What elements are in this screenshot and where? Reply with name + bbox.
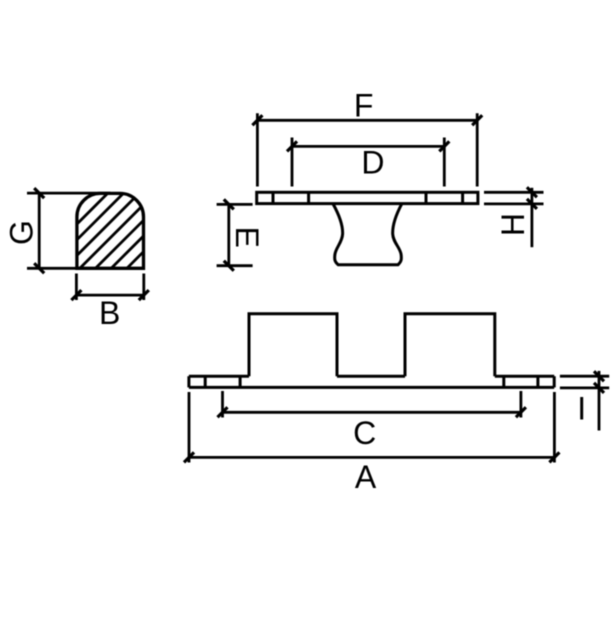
cross-section profile (view 1) (77, 193, 144, 268)
svg-text:B: B (99, 295, 120, 331)
dimension A slashes (184, 452, 559, 462)
svg-text:D: D (361, 144, 384, 180)
dimension A extension lines (189, 392, 554, 463)
svg-text:C: C (353, 415, 376, 451)
dimension F extension lines (257, 113, 477, 186)
dimension E extension ticks (217, 204, 253, 265)
dimension D slashes (287, 141, 449, 151)
dimension H line (531, 188, 534, 247)
dimension F slashes (252, 115, 482, 125)
dimension A line (189, 456, 554, 459)
svg-text:A: A (355, 459, 377, 495)
dimension G slashes (34, 188, 44, 273)
dimension B extension lines (76, 274, 143, 301)
dimension C extension lines (223, 391, 521, 418)
dimension C slashes (218, 407, 526, 417)
dimension G line (38, 193, 41, 268)
dimension C line (223, 411, 521, 414)
dimension E slashes (224, 199, 234, 270)
svg-text:E: E (229, 227, 265, 248)
side view top bar (view 2) (257, 192, 478, 203)
svg-text:F: F (354, 88, 374, 124)
front view left post (249, 314, 337, 376)
dimension I line (598, 371, 601, 431)
front view right post (405, 314, 495, 376)
dimension I extension lines (560, 376, 609, 388)
dimension I slashes (594, 371, 604, 393)
svg-text:H: H (495, 213, 531, 236)
dimension D extension lines (292, 138, 444, 187)
dimension H slashes (527, 187, 537, 209)
side view stem/pedestal (333, 204, 402, 265)
svg-text:I: I (577, 391, 586, 427)
svg-text:G: G (4, 220, 40, 245)
dimension B line (76, 294, 143, 297)
front view base plate (view 3) (189, 376, 554, 387)
dimension F line (257, 119, 477, 122)
dimension G extension ticks (27, 193, 111, 268)
hatch lines of cross-section (16, 185, 226, 285)
dimension B slashes (71, 290, 148, 300)
dimension D line (292, 145, 444, 148)
dimension E line (227, 204, 230, 265)
dimension H extension lines (484, 192, 544, 204)
